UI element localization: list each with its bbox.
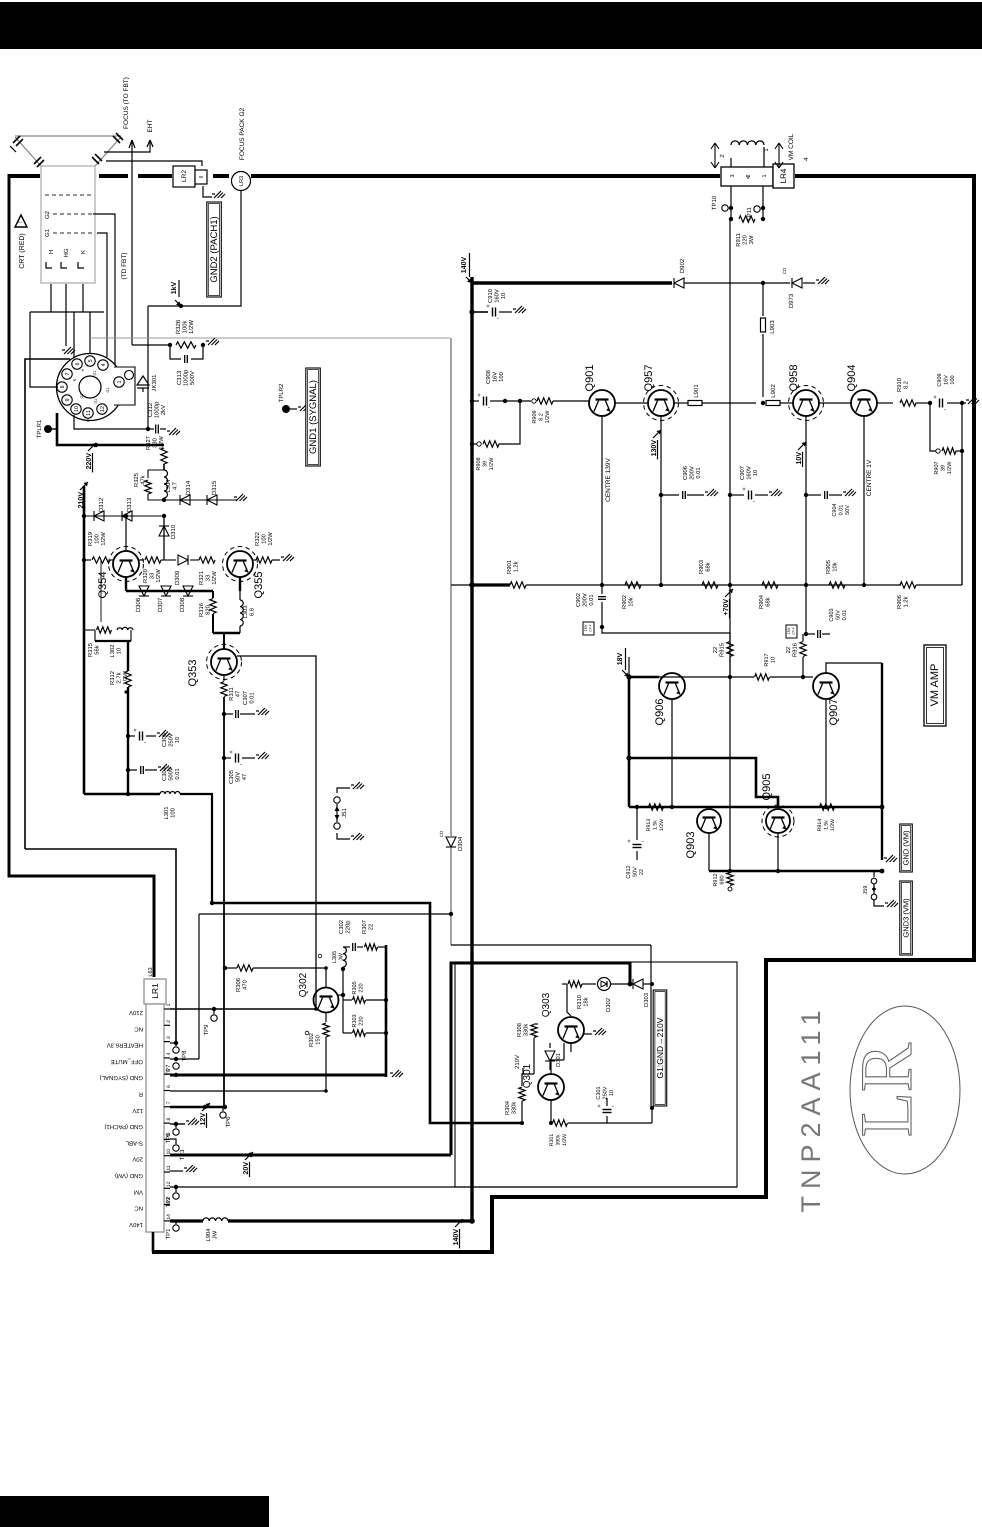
svg-text:10: 10 bbox=[500, 293, 507, 299]
svg-text:0.01: 0.01 bbox=[249, 692, 256, 703]
svg-text:R319: R319 bbox=[87, 532, 94, 546]
svg-text:HEATER6.3V: HEATER6.3V bbox=[107, 1042, 143, 1049]
jumper J59 bbox=[873, 872, 875, 877]
wire Q907 emitter bbox=[825, 699, 827, 807]
wire D310 stem bbox=[163, 516, 165, 560]
svg-text:1kV: 1kV bbox=[170, 281, 178, 294]
net 18V bbox=[628, 657, 630, 677]
wire riser pin6 bbox=[73, 312, 75, 358]
svg-text:C908: C908 bbox=[485, 370, 492, 384]
svg-text:LR: LR bbox=[846, 1042, 928, 1137]
svg-text:L303: L303 bbox=[242, 606, 249, 619]
wire Q901 emitter bbox=[601, 416, 603, 585]
svg-text:-: - bbox=[240, 762, 242, 768]
resistor R311 bbox=[223, 675, 225, 681]
wire Q958 emitter bbox=[805, 416, 807, 585]
capacitor C902 bbox=[601, 585, 603, 594]
wire box node bbox=[650, 1106, 654, 1110]
warning triangle bbox=[15, 215, 27, 227]
wire pin1 210V bbox=[170, 1008, 316, 1010]
diode D306 bbox=[139, 586, 149, 596]
svg-text:C313: C313 bbox=[176, 370, 183, 385]
svg-text:-: - bbox=[944, 407, 946, 413]
svg-text:Q958: Q958 bbox=[788, 365, 800, 392]
svg-text:8.2: 8.2 bbox=[539, 413, 545, 421]
svg-text:GND2 (PACH1): GND2 (PACH1) bbox=[209, 216, 220, 282]
resistor R912 bbox=[727, 873, 733, 886]
svg-text:H: H bbox=[81, 368, 85, 371]
ground C909 bbox=[962, 402, 966, 404]
svg-text:CD: CD bbox=[782, 267, 787, 274]
thick node rail Q302 bbox=[385, 945, 388, 1077]
test point TP2 bbox=[175, 1187, 177, 1192]
svg-text:4: 4 bbox=[166, 1052, 172, 1055]
svg-text:JK301: JK301 bbox=[151, 374, 158, 392]
svg-text:39: 39 bbox=[483, 461, 489, 467]
node C910 bbox=[469, 309, 474, 314]
svg-text:R: R bbox=[138, 1091, 143, 1098]
test point TP1 bbox=[175, 1221, 177, 1224]
svg-text:OFF_MUTE: OFF_MUTE bbox=[111, 1058, 143, 1065]
svg-text:1/2W: 1/2W bbox=[545, 410, 551, 424]
capacitor C912 bbox=[635, 805, 639, 809]
node C304 bbox=[126, 768, 130, 772]
svg-text:D302: D302 bbox=[605, 998, 612, 1012]
resistor R327 bbox=[161, 448, 167, 464]
connector LR4 bbox=[721, 167, 773, 186]
diode D301 bbox=[549, 1043, 551, 1048]
wire base row bbox=[659, 676, 754, 678]
inductor L902 bbox=[766, 401, 780, 406]
svg-text:+: + bbox=[627, 839, 631, 845]
transistor Q303 bbox=[558, 1017, 584, 1043]
wire to Q302 box bbox=[212, 903, 522, 1123]
wire R907 drop bbox=[961, 403, 963, 585]
svg-text:R316: R316 bbox=[198, 603, 205, 617]
svg-text:6.8: 6.8 bbox=[249, 608, 256, 616]
svg-text:TP10: TP10 bbox=[711, 195, 718, 210]
border bottom-right jog bbox=[152, 960, 976, 1252]
resistor R312 bbox=[125, 671, 131, 687]
svg-text:2: 2 bbox=[166, 1020, 172, 1023]
wire Q353 emitter line bbox=[223, 697, 225, 1107]
svg-text:CP-F: CP-F bbox=[589, 624, 593, 631]
svg-text:Q907: Q907 bbox=[828, 699, 840, 726]
svg-text:K: K bbox=[72, 378, 77, 381]
test point TPLR1 bbox=[44, 425, 52, 433]
resistor R909 bbox=[505, 400, 531, 402]
svg-text:1/2W: 1/2W bbox=[562, 1134, 568, 1146]
capacitor C909 bbox=[939, 399, 941, 408]
resistor R307 bbox=[365, 944, 378, 950]
diode D309 bbox=[161, 559, 176, 561]
parallel R325/L304 bbox=[163, 464, 165, 470]
wire Q355 emitter bbox=[239, 577, 241, 591]
socket small G1 cap circle bbox=[125, 371, 134, 380]
svg-text:+: + bbox=[229, 750, 233, 756]
resistor R306 bbox=[225, 967, 237, 969]
wire LR3 down bbox=[148, 191, 241, 306]
svg-text:D307: D307 bbox=[157, 597, 164, 612]
svg-text:0.01: 0.01 bbox=[839, 505, 845, 516]
svg-text:R322: R322 bbox=[254, 532, 261, 546]
svg-text:0.01: 0.01 bbox=[588, 594, 595, 605]
svg-text:K: K bbox=[80, 250, 87, 254]
test point TP6 bbox=[222, 1107, 224, 1111]
svg-text:R326: R326 bbox=[175, 319, 182, 334]
resistor R319 bbox=[92, 557, 110, 563]
svg-text:R905: R905 bbox=[825, 560, 832, 574]
svg-text:R901: R901 bbox=[506, 560, 513, 574]
svg-text:S-ABL: S-ABL bbox=[125, 1139, 143, 1146]
wire L303/R316 join bbox=[213, 632, 240, 634]
svg-text:TNP2AA111: TNP2AA111 bbox=[796, 1003, 826, 1212]
resistor R901 bbox=[510, 582, 526, 588]
svg-text:Q302: Q302 bbox=[298, 972, 309, 997]
svg-text:330k: 330k bbox=[511, 1102, 518, 1115]
resistor R902 bbox=[625, 582, 641, 588]
svg-text:1.5k: 1.5k bbox=[824, 820, 830, 830]
capacitor C907 bbox=[730, 494, 744, 496]
svg-text:10: 10 bbox=[609, 1090, 615, 1096]
diode D902 bbox=[674, 278, 684, 288]
capacitor C307 bbox=[224, 713, 233, 715]
inductor L301 bbox=[160, 792, 165, 795]
diode D313 bbox=[122, 511, 132, 521]
svg-text:12V: 12V bbox=[132, 1107, 143, 1114]
svg-text:R910: R910 bbox=[896, 378, 903, 392]
svg-text:1/2W: 1/2W bbox=[659, 819, 665, 831]
spark gap JK301 bbox=[137, 376, 149, 385]
border left edge wire to LR1 bbox=[9, 174, 154, 977]
svg-text:R906: R906 bbox=[896, 595, 903, 609]
wire Q353 line to R306 bbox=[223, 966, 227, 970]
resistor R907 bbox=[930, 403, 936, 451]
wire to Q901 bbox=[553, 400, 589, 402]
border top edge bbox=[8, 174, 40, 178]
svg-text:10: 10 bbox=[752, 470, 759, 476]
svg-text:D304: D304 bbox=[457, 836, 464, 851]
gray boundary right edge bbox=[450, 338, 452, 836]
wire D304 tap bbox=[451, 584, 472, 586]
svg-text:TP8: TP8 bbox=[181, 1050, 188, 1062]
capacitor C910 bbox=[472, 311, 488, 313]
wire 140V to bus bbox=[228, 1219, 472, 1222]
svg-text:C912: C912 bbox=[626, 865, 632, 878]
svg-text:1/2W: 1/2W bbox=[211, 571, 218, 585]
svg-text:R315: R315 bbox=[87, 643, 94, 657]
svg-text:+: + bbox=[486, 304, 490, 310]
svg-text:J51: J51 bbox=[341, 808, 348, 818]
wire 18V row bbox=[629, 676, 659, 679]
wire Q958-Q904 bbox=[819, 402, 851, 404]
node C305 bbox=[222, 756, 226, 760]
resistor R911 bbox=[739, 216, 755, 222]
wire pin9 S-ABL bbox=[170, 1139, 176, 1144]
svg-text:1: 1 bbox=[166, 1003, 172, 1006]
svg-text:R303: R303 bbox=[352, 1014, 358, 1027]
svg-text:NC: NC bbox=[134, 1205, 143, 1212]
svg-text:C304: C304 bbox=[161, 766, 168, 781]
svg-text:3: 3 bbox=[730, 174, 736, 177]
net 140V top bbox=[466, 277, 472, 283]
wire R906 to R907 bbox=[916, 584, 962, 586]
svg-text:R312: R312 bbox=[109, 671, 116, 685]
wire K stub bbox=[82, 284, 84, 312]
svg-text:390k: 390k bbox=[556, 1134, 562, 1146]
svg-text:6: 6 bbox=[75, 362, 81, 365]
svg-text:JW: JW bbox=[213, 1230, 219, 1239]
inductor L303 bbox=[239, 591, 241, 600]
svg-text:1: 1 bbox=[117, 380, 123, 383]
svg-text:Q957: Q957 bbox=[643, 365, 655, 392]
svg-text:HG: HG bbox=[63, 248, 70, 257]
svg-text:20V: 20V bbox=[132, 1156, 143, 1163]
svg-text:L901: L901 bbox=[693, 384, 700, 398]
svg-text:L302: L302 bbox=[109, 645, 116, 658]
svg-text:Q354: Q354 bbox=[97, 572, 109, 599]
diode D307 bbox=[161, 586, 171, 596]
wire H stub bbox=[50, 284, 52, 312]
svg-text:0.01: 0.01 bbox=[842, 610, 848, 621]
wire D303 right bbox=[643, 983, 652, 985]
wire Q354 emitter row bbox=[125, 577, 127, 591]
svg-text:G1: G1 bbox=[106, 387, 110, 392]
wire gray socket to R326 bbox=[90, 337, 450, 339]
svg-text:7: 7 bbox=[65, 372, 71, 375]
svg-text:TP2: TP2 bbox=[165, 1196, 172, 1208]
net 10V bbox=[798, 442, 806, 450]
svg-text:11: 11 bbox=[166, 1165, 172, 1170]
svg-text:1: 1 bbox=[762, 174, 768, 177]
capacitor C305 bbox=[224, 757, 231, 759]
capacitor C301 bbox=[606, 1116, 608, 1123]
wire Q303 feed bbox=[567, 984, 571, 1016]
LR1 pins and labels bbox=[164, 1008, 170, 1010]
capacitor C304 bbox=[128, 769, 137, 771]
test point TP10 bbox=[722, 205, 728, 211]
svg-text:R907: R907 bbox=[934, 461, 940, 474]
svg-text:R909: R909 bbox=[532, 410, 538, 423]
resistor R308 bbox=[534, 1023, 538, 1025]
socket pin1 bump bbox=[114, 367, 135, 405]
svg-text:R301: R301 bbox=[549, 1134, 555, 1147]
svg-text:330: 330 bbox=[152, 438, 159, 448]
parallel R315 L302 bbox=[84, 629, 95, 631]
svg-text:47k: 47k bbox=[140, 475, 147, 484]
wire pin8 bbox=[170, 1123, 185, 1125]
svg-text:10: 10 bbox=[174, 737, 181, 743]
svg-text:200V: 200V bbox=[582, 593, 589, 607]
svg-text:-: - bbox=[497, 316, 499, 322]
svg-text:220: 220 bbox=[359, 983, 365, 992]
svg-text:L902: L902 bbox=[770, 384, 777, 398]
svg-text:G1:GND→210V: G1:GND→210V bbox=[655, 1017, 665, 1078]
resistor R908 bbox=[472, 443, 477, 445]
resistor R913 bbox=[649, 804, 664, 810]
svg-text:R307: R307 bbox=[361, 920, 368, 934]
svg-text:R913: R913 bbox=[646, 819, 652, 832]
svg-text:140V: 140V bbox=[461, 257, 468, 274]
svg-text:16V: 16V bbox=[492, 372, 499, 382]
svg-text:D315: D315 bbox=[211, 480, 218, 495]
svg-text:D973: D973 bbox=[788, 293, 795, 308]
svg-text:4: 4 bbox=[101, 363, 107, 366]
svg-text:R304: R304 bbox=[504, 1100, 511, 1115]
svg-text:+: + bbox=[933, 395, 937, 401]
svg-text:R912: R912 bbox=[713, 873, 719, 886]
svg-text:Q903: Q903 bbox=[685, 832, 697, 859]
bus 210V vertical bbox=[83, 486, 86, 794]
CRT socket body bbox=[57, 354, 124, 421]
svg-text:100: 100 bbox=[170, 808, 177, 818]
svg-text:100: 100 bbox=[498, 372, 505, 382]
svg-text:C910: C910 bbox=[487, 289, 494, 303]
svg-text:16V: 16V bbox=[944, 375, 950, 385]
transistor Q354 bbox=[113, 551, 139, 577]
node C306 bbox=[126, 734, 130, 738]
svg-text:250V: 250V bbox=[603, 1086, 609, 1099]
capacitor C313 bbox=[170, 345, 181, 359]
svg-text:22: 22 bbox=[785, 647, 792, 653]
svg-text:10: 10 bbox=[771, 657, 777, 663]
svg-text:11: 11 bbox=[86, 410, 92, 416]
capacitor C312 bbox=[148, 428, 154, 430]
svg-text:H: H bbox=[48, 250, 55, 254]
svg-text:140V: 140V bbox=[129, 1221, 143, 1228]
svg-text:4.7: 4.7 bbox=[173, 482, 179, 490]
net 220V bbox=[94, 443, 98, 447]
test point TP11 bbox=[754, 206, 760, 212]
svg-text:VM COIL: VM COIL bbox=[788, 133, 795, 160]
svg-text:L63: L63 bbox=[148, 967, 154, 976]
svg-text:22: 22 bbox=[368, 924, 375, 930]
svg-text:D310: D310 bbox=[170, 524, 177, 539]
diode D303 bbox=[633, 979, 643, 989]
svg-text:820: 820 bbox=[205, 605, 212, 615]
svg-text:0.01: 0.01 bbox=[695, 467, 702, 478]
svg-text:1/2W: 1/2W bbox=[489, 457, 495, 471]
socket center hole bbox=[79, 376, 101, 398]
wire D312 row bbox=[84, 515, 164, 517]
wire Q301 emitter down bbox=[550, 1100, 552, 1123]
svg-text:1/2W: 1/2W bbox=[267, 532, 274, 546]
svg-text:50V: 50V bbox=[633, 867, 639, 877]
svg-text:9: 9 bbox=[65, 398, 71, 401]
capacitor C908 bbox=[483, 397, 485, 406]
inductor L903 bbox=[762, 283, 764, 316]
svg-text:L301: L301 bbox=[163, 807, 170, 820]
resistor R303 bbox=[342, 1000, 344, 1033]
svg-text:470: 470 bbox=[242, 980, 249, 990]
svg-text:250V: 250V bbox=[168, 733, 175, 747]
svg-text:Q904: Q904 bbox=[846, 365, 858, 392]
svg-text:CENTRE 139V: CENTRE 139V bbox=[605, 457, 612, 501]
jumper J51 bbox=[337, 788, 350, 793]
svg-text:R321: R321 bbox=[198, 571, 205, 585]
svg-text:-: - bbox=[612, 1104, 614, 1110]
svg-text:1.2k: 1.2k bbox=[903, 596, 910, 607]
svg-text:G1: G1 bbox=[94, 398, 98, 403]
svg-text:-: - bbox=[144, 740, 146, 746]
svg-text:8: 8 bbox=[166, 1117, 172, 1120]
wire Q901-Q957 bbox=[615, 402, 648, 404]
label GND2 (PACH1) bbox=[207, 202, 222, 297]
wire Q957 emitter bbox=[660, 416, 662, 585]
svg-text:GND (VM): GND (VM) bbox=[115, 1172, 143, 1179]
svg-text:GND (SYGNAL): GND (SYGNAL) bbox=[100, 1074, 143, 1081]
svg-text:2.7k: 2.7k bbox=[116, 672, 123, 683]
transistor Q903 bbox=[697, 809, 721, 833]
resistor R915 bbox=[727, 642, 733, 657]
svg-text:1/2W: 1/2W bbox=[100, 532, 107, 546]
svg-text:(TD FBT): (TD FBT) bbox=[121, 252, 128, 279]
capacitor C904 bbox=[806, 494, 821, 496]
svg-text:R916: R916 bbox=[792, 643, 799, 657]
label GND3 (VM) bbox=[900, 881, 913, 955]
wire right drop bbox=[650, 984, 652, 1108]
wire G1 riser bbox=[147, 306, 149, 429]
svg-text:CRT (RED): CRT (RED) bbox=[18, 233, 26, 269]
svg-text:R310: R310 bbox=[576, 995, 583, 1009]
wire C902 to R915 bbox=[602, 627, 730, 633]
svg-text:0.01: 0.01 bbox=[174, 768, 181, 779]
svg-text:FOCUS (TO FBT): FOCUS (TO FBT) bbox=[123, 77, 130, 129]
svg-text:10: 10 bbox=[116, 648, 123, 654]
svg-text:C302: C302 bbox=[338, 920, 345, 934]
svg-text:LR3: LR3 bbox=[239, 176, 245, 186]
svg-text:6: 6 bbox=[166, 1085, 172, 1088]
wire pin3 heater bbox=[170, 1042, 176, 1044]
socket pins 1-12 bbox=[85, 356, 95, 366]
svg-text:G2: G2 bbox=[44, 210, 51, 219]
wire TPLR1 thick bbox=[57, 413, 164, 445]
wire pin10 20V bbox=[170, 1154, 451, 1157]
svg-text:L304: L304 bbox=[165, 479, 172, 493]
wire Q904 emitter bbox=[863, 416, 865, 585]
svg-text:+: + bbox=[477, 393, 481, 399]
wire OFF_MUTE to blanking bbox=[451, 944, 651, 946]
svg-text:D312: D312 bbox=[98, 497, 105, 512]
wire thick mid bbox=[629, 758, 778, 808]
node C307 bbox=[222, 712, 226, 716]
test point TPLR2 bbox=[282, 405, 290, 413]
logo LR ellipse bbox=[850, 1006, 960, 1174]
wire socket to C312 bbox=[74, 415, 148, 429]
resistor R310 bbox=[562, 983, 567, 985]
svg-text:R320: R320 bbox=[142, 569, 149, 583]
ground R322 bbox=[272, 559, 280, 561]
wire LR4 pin3 down bbox=[730, 186, 732, 219]
node D314 row bbox=[162, 498, 166, 502]
transistor Q958 bbox=[793, 390, 819, 416]
svg-text:15V: 15V bbox=[584, 624, 588, 631]
svg-text:D313: D313 bbox=[126, 497, 133, 512]
wire riser pin5 bbox=[89, 312, 91, 356]
connector LR2 bbox=[173, 166, 195, 187]
svg-text:R904: R904 bbox=[758, 594, 765, 609]
svg-text:50V: 50V bbox=[836, 610, 842, 620]
ground D315 bbox=[234, 496, 237, 498]
svg-text:33: 33 bbox=[149, 573, 156, 579]
svg-text:C909: C909 bbox=[937, 373, 943, 386]
wire pin4 riser bbox=[198, 914, 200, 1059]
wire Q303 emitter bbox=[570, 1043, 572, 1052]
label GND (VM) bbox=[900, 824, 913, 872]
transistor Q905 bbox=[766, 809, 790, 833]
wire Q302 collector bbox=[325, 968, 327, 988]
node C909 left bbox=[916, 402, 928, 404]
